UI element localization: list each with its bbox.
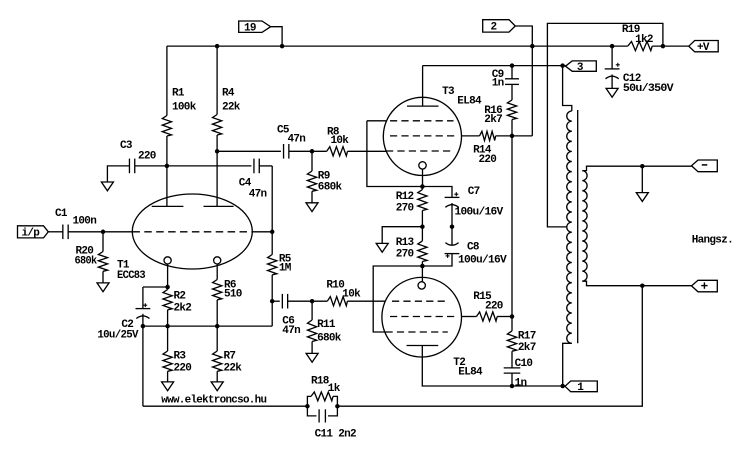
svg-text:220: 220	[138, 150, 156, 162]
svg-text:50u/350V: 50u/350V	[623, 83, 674, 95]
svg-text:2k7: 2k7	[518, 342, 536, 354]
svg-text:680k: 680k	[75, 255, 98, 267]
svg-text:100k: 100k	[172, 101, 197, 113]
svg-text:100u/16V: 100u/16V	[455, 207, 504, 219]
svg-text:1n: 1n	[515, 377, 527, 389]
svg-text:R2: R2	[174, 290, 186, 302]
svg-text:1M: 1M	[279, 263, 292, 275]
svg-text:ECC83: ECC83	[117, 270, 146, 282]
svg-text:R3: R3	[174, 350, 187, 362]
svg-text:680k: 680k	[317, 333, 342, 345]
svg-text:i/p: i/p	[22, 227, 41, 239]
svg-text:100n: 100n	[73, 215, 97, 227]
svg-text:1k2: 1k2	[635, 34, 653, 46]
svg-text:C1: C1	[55, 208, 68, 220]
svg-text:C11 2n2: C11 2n2	[315, 429, 356, 441]
svg-text:C10: C10	[515, 358, 533, 370]
svg-text:10k: 10k	[331, 135, 350, 147]
svg-text:EL84: EL84	[458, 366, 483, 378]
svg-text:1n: 1n	[492, 78, 504, 90]
svg-text:www.elektroncso.hu: www.elektroncso.hu	[161, 394, 266, 406]
svg-text:220: 220	[485, 300, 503, 312]
svg-text:R9: R9	[318, 170, 330, 182]
svg-text:680k: 680k	[318, 182, 343, 194]
svg-text:47n: 47n	[288, 134, 306, 146]
svg-text:EL84: EL84	[457, 95, 482, 107]
svg-text:10u/25V: 10u/25V	[97, 330, 138, 342]
svg-text:10k: 10k	[342, 289, 361, 301]
svg-text:2: 2	[491, 22, 497, 34]
svg-text:R12: R12	[396, 191, 414, 203]
svg-text:47n: 47n	[282, 325, 300, 337]
svg-text:R17: R17	[518, 330, 536, 342]
svg-text:C7: C7	[468, 186, 480, 198]
svg-text:220: 220	[479, 154, 497, 166]
svg-text:1k: 1k	[328, 383, 341, 395]
svg-text:R4: R4	[222, 87, 235, 99]
svg-text:T3: T3	[442, 86, 455, 98]
svg-text:510: 510	[224, 288, 242, 300]
svg-text:220: 220	[174, 363, 192, 375]
svg-text:270: 270	[396, 248, 414, 260]
svg-text:22k: 22k	[224, 363, 243, 375]
svg-text:270: 270	[396, 202, 414, 214]
svg-text:2k2: 2k2	[174, 302, 192, 314]
svg-text:100u/16V: 100u/16V	[458, 254, 507, 266]
svg-text:+V: +V	[697, 42, 710, 54]
svg-text:19: 19	[244, 22, 256, 34]
svg-text:C8: C8	[467, 241, 480, 253]
svg-text:R11: R11	[317, 319, 336, 331]
svg-text:C3: C3	[120, 140, 133, 152]
svg-text:47n: 47n	[249, 188, 267, 200]
svg-text:R7: R7	[224, 350, 236, 362]
svg-text:22k: 22k	[222, 101, 241, 113]
svg-text:Hangsz.: Hangsz.	[692, 234, 733, 246]
svg-text:2k7: 2k7	[484, 114, 502, 126]
svg-text:R1: R1	[172, 87, 185, 99]
